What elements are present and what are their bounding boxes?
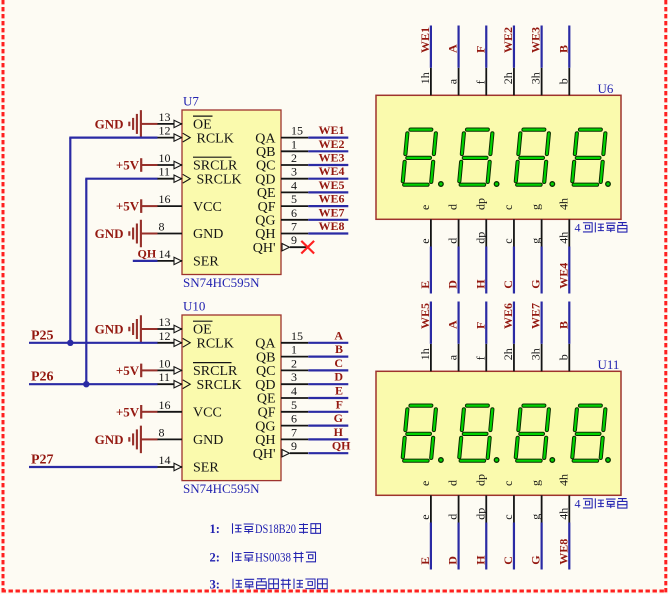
svg-text:QH: QH	[255, 433, 275, 448]
U11 digit 4 (figure 8)	[572, 406, 606, 461]
U7 pin 15 QA (right)	[255, 124, 308, 147]
wire net WE4 from U6 pin 4h	[568, 247, 570, 294]
wire net WE3 to U6 pin 3h	[541, 26, 543, 68]
U6 decimal point 4	[606, 182, 611, 187]
svg-text:VCC: VCC	[193, 406, 222, 421]
net label WE4	[318, 164, 344, 178]
svg-text:12: 12	[159, 124, 171, 138]
U10 pin 1 QB (right)	[256, 343, 308, 366]
U6 decimal point 3	[550, 182, 555, 187]
svg-text:14: 14	[159, 453, 171, 467]
svg-text:P27: P27	[31, 453, 54, 468]
U11 bottom pin c stub	[501, 495, 515, 522]
U7 pin 1 QB (right)	[256, 137, 308, 160]
wire net E at U10	[308, 397, 348, 399]
svg-text:a: a	[446, 354, 460, 360]
svg-text:1: 1	[291, 343, 297, 357]
svg-text:1:: 1:	[210, 522, 220, 536]
U11 digit 2 (figure 8)	[459, 406, 493, 461]
U7 pin 13 OE (left)	[157, 110, 213, 133]
U7 pin 11 SRCLK (left)	[157, 165, 242, 188]
U6 inside pin name d	[446, 204, 460, 210]
net label C	[501, 280, 515, 289]
U11 top pin f stub	[473, 344, 487, 372]
svg-text:6: 6	[291, 206, 297, 220]
svg-text:QA: QA	[255, 337, 276, 352]
svg-text:VCC: VCC	[193, 200, 222, 215]
U10 pin 2 QC (right)	[256, 356, 308, 379]
svg-text:SER: SER	[193, 255, 219, 270]
svg-text:QG: QG	[255, 419, 275, 434]
wire net G from U11 pin g	[541, 523, 543, 570]
svg-text:WE3: WE3	[529, 27, 543, 53]
reference designator U6	[598, 81, 614, 96]
U11 digit 1 (figure 8)	[402, 406, 436, 461]
net label G	[334, 411, 343, 425]
wire net H from U11 pin dp	[485, 523, 487, 570]
svg-text:B: B	[556, 45, 570, 53]
svg-text:DS18B20: DS18B20	[255, 522, 296, 536]
net label WE3	[318, 151, 344, 165]
svg-text:GND: GND	[95, 116, 124, 131]
svg-text:4h: 4h	[556, 474, 570, 486]
svg-text:13: 13	[159, 315, 171, 329]
U6 bottom pin d stub	[446, 219, 460, 246]
svg-text:4: 4	[575, 497, 581, 511]
wire net E from U11 pin e	[430, 523, 432, 570]
svg-text:15: 15	[291, 329, 303, 343]
svg-text:G: G	[334, 411, 343, 425]
U10 pin 4 QE (right)	[257, 384, 308, 407]
svg-text:12: 12	[159, 329, 171, 343]
display body U6 4-digit 7-segment	[376, 95, 621, 219]
+5V power symbol for U7 pin 10	[116, 158, 158, 173]
U11 inside pin name dp	[473, 474, 487, 486]
U6 digit 4 (figure 8)	[572, 130, 606, 185]
U10 pin 7 QH (right)	[255, 425, 308, 448]
sheet border dashed red (right)	[664, 0, 667, 593]
svg-text:3h: 3h	[529, 348, 543, 360]
svg-text:WE6: WE6	[318, 192, 344, 206]
svg-text:RCLK: RCLK	[197, 131, 234, 146]
U10 pin 15 QA (right)	[255, 329, 308, 352]
wire net A to U6 pin a	[457, 26, 459, 68]
U11 top pin 3h stub	[529, 344, 543, 372]
U6 bottom pin dp stub	[473, 219, 487, 246]
svg-text:4: 4	[291, 384, 297, 398]
svg-text:WE1: WE1	[318, 123, 344, 137]
net label WE7	[318, 205, 344, 219]
U11 inside pin name c	[501, 481, 515, 486]
reference designator U11	[598, 357, 620, 372]
svg-text:QH: QH	[332, 439, 351, 453]
reference designator U7	[183, 94, 199, 109]
wire net E from U6 pin e	[430, 247, 432, 294]
note 2: repair HS0038 pinout	[210, 551, 316, 565]
wire net F at U10	[308, 411, 348, 413]
svg-text:3: 3	[291, 165, 297, 179]
U6 top pin b stub	[556, 68, 570, 96]
wire P27 horizontal to U10 SER	[29, 466, 158, 468]
power ground symbol for U10 pin 8	[95, 426, 158, 454]
svg-text:D: D	[334, 370, 343, 384]
svg-text:HS0038: HS0038	[255, 551, 291, 565]
U11 top pin 2h stub	[501, 344, 515, 372]
wire net QH at U10 pin 9	[308, 452, 348, 454]
net label QH	[332, 439, 351, 453]
net label WE6	[318, 192, 344, 206]
svg-text:WE6: WE6	[501, 303, 515, 329]
svg-text:2: 2	[291, 151, 297, 165]
svg-text:RCLK: RCLK	[197, 337, 234, 352]
wire net WE8 from U11 pin 4h	[568, 523, 570, 570]
svg-text:6: 6	[291, 412, 297, 426]
IC body U10 SN74HC595N	[182, 315, 281, 481]
svg-text:d: d	[446, 238, 460, 244]
svg-text:13: 13	[159, 110, 171, 124]
net label G	[529, 555, 543, 564]
net label WE2	[318, 137, 344, 151]
wire net WE7 to U11 pin 3h	[541, 302, 543, 344]
net label H	[473, 555, 487, 565]
display body U11 4-digit 7-segment	[376, 371, 621, 495]
net label WE3	[529, 27, 543, 53]
wire net WE1 at U7	[308, 137, 348, 139]
U7 pin 7 QH (right)	[255, 220, 308, 243]
svg-text:B: B	[556, 321, 570, 329]
U7 pin 2 QC (right)	[256, 151, 308, 174]
U10 pin 10 SRCLR (left)	[157, 356, 238, 379]
svg-text:WE8: WE8	[556, 539, 570, 565]
net label WE7	[529, 303, 543, 329]
net label WE8	[318, 219, 344, 233]
svg-text:E: E	[335, 384, 343, 398]
wire net WE5 at U7	[308, 191, 348, 193]
net label C	[501, 556, 515, 565]
wire net WE3 at U7	[308, 164, 348, 166]
svg-text:e: e	[418, 238, 432, 243]
svg-text:WE1: WE1	[418, 27, 432, 53]
svg-text:+5V: +5V	[116, 404, 140, 419]
U6 decimal point 2	[494, 182, 499, 187]
U11 bottom pin g stub	[529, 495, 543, 522]
+5V power symbol for U10 pin 16	[116, 404, 158, 419]
svg-text:16: 16	[159, 398, 171, 412]
svg-text:SER: SER	[193, 461, 219, 476]
U10 pin 13 OE (left)	[157, 315, 213, 338]
U7 pin 10 SRCLR (left)	[157, 151, 238, 174]
svg-text:f: f	[473, 356, 487, 360]
net label D	[446, 280, 460, 289]
svg-text:b: b	[556, 354, 570, 360]
U10 pin 16 VCC (left)	[157, 398, 222, 421]
IC body U7 SN74HC595N	[182, 110, 281, 275]
U6 top pin a stub	[446, 68, 460, 96]
wire net H at U10	[308, 438, 348, 440]
wire net WE4 at U7	[308, 178, 348, 180]
svg-text:P26: P26	[31, 370, 54, 385]
svg-text:3: 3	[291, 370, 297, 384]
svg-text:4: 4	[575, 221, 581, 235]
svg-text:QE: QE	[257, 392, 276, 407]
svg-text:WE7: WE7	[529, 303, 543, 329]
svg-text:dp: dp	[473, 474, 487, 486]
U6 bottom pin 4h stub	[556, 219, 570, 246]
svg-text:WE7: WE7	[318, 205, 344, 219]
net label H	[334, 425, 344, 439]
wire net D from U6 pin d	[457, 247, 459, 294]
U11 bottom pin d stub	[446, 495, 460, 522]
wire net C from U11 pin c	[513, 523, 515, 570]
caption 4-digit digital tube label of U11	[575, 497, 627, 511]
U11 inside pin name e	[418, 481, 432, 486]
wire P25 horizontal	[29, 342, 158, 344]
net label WE1	[318, 123, 344, 137]
net label G	[529, 279, 543, 288]
sheet border dashed red (left)	[2, 0, 5, 593]
U10 pin 6 QG (right)	[255, 412, 308, 435]
svg-text:SN74HC595N: SN74HC595N	[183, 481, 260, 496]
svg-text:U10: U10	[183, 299, 205, 314]
svg-text:c: c	[501, 481, 515, 486]
svg-text:WE4: WE4	[318, 164, 344, 178]
svg-text:E: E	[418, 557, 432, 565]
svg-text:c: c	[501, 205, 515, 210]
wire net WE5 to U11 pin 1h	[430, 302, 432, 344]
svg-text:QC: QC	[256, 364, 275, 379]
caption 4-digit digital tube label of U6	[575, 221, 627, 235]
svg-text:4h: 4h	[556, 508, 570, 520]
svg-text:G: G	[529, 279, 543, 288]
net label P26	[31, 370, 54, 385]
U6 inside pin name 4h	[556, 198, 570, 210]
svg-text:F: F	[336, 397, 343, 411]
svg-text:QH: QH	[138, 246, 157, 260]
svg-text:15: 15	[291, 124, 303, 138]
wire net B to U11 pin b	[568, 302, 570, 344]
svg-text:a: a	[446, 78, 460, 84]
svg-text:+5V: +5V	[116, 199, 140, 214]
U10 pin 9 QH&#39; (right)	[253, 439, 308, 462]
+5V power symbol for U10 pin 10	[116, 363, 158, 378]
net label E	[418, 557, 432, 565]
svg-text:C: C	[501, 556, 515, 565]
svg-text:+5V: +5V	[116, 363, 140, 378]
svg-text:8: 8	[159, 220, 165, 234]
net label D	[446, 556, 460, 565]
svg-text:4: 4	[291, 178, 297, 192]
svg-text:U7: U7	[183, 94, 199, 109]
part value SN74HC595N of U10	[183, 481, 260, 496]
U11 inside pin name d	[446, 480, 460, 486]
U11 inside pin name 4h	[556, 474, 570, 486]
U10 pin 12 RCLK (left)	[157, 329, 234, 352]
svg-text:16: 16	[159, 192, 171, 206]
svg-text:5: 5	[291, 398, 297, 412]
net label WE5	[318, 178, 344, 192]
U11 digit 3 (figure 8)	[515, 406, 549, 461]
U6 inside pin name dp	[473, 198, 487, 210]
net label B	[556, 321, 570, 329]
svg-text:SRCLK: SRCLK	[197, 378, 242, 393]
U7 pin 9 QH&#39; (right)	[253, 233, 308, 256]
U10 pin 5 QF (right)	[258, 398, 309, 421]
svg-text:F: F	[473, 46, 487, 53]
svg-text:14: 14	[159, 247, 171, 261]
wire net WE1 to U6 pin 1h	[430, 26, 432, 68]
svg-text:F: F	[473, 322, 487, 329]
svg-text:WE2: WE2	[501, 27, 515, 53]
svg-text:d: d	[446, 480, 460, 486]
svg-text:11: 11	[159, 165, 171, 179]
svg-text:g: g	[529, 514, 543, 520]
U7 pin 3 QD (right)	[255, 165, 308, 188]
U7 pin 6 QG (right)	[255, 206, 308, 229]
svg-text:10: 10	[159, 356, 171, 370]
U11 decimal point 2	[494, 458, 499, 463]
svg-text:D: D	[446, 280, 460, 289]
svg-text:WE4: WE4	[556, 263, 570, 289]
net label P27	[31, 453, 54, 468]
U6 top pin 3h stub	[529, 68, 543, 96]
svg-text:GND: GND	[193, 433, 223, 448]
U6 top pin 2h stub	[501, 68, 515, 96]
svg-text:1h: 1h	[418, 348, 432, 360]
U6 digit 2 (figure 8)	[459, 130, 493, 185]
U11 top pin 1h stub	[418, 344, 432, 372]
U11 decimal point 3	[550, 458, 555, 463]
wire P26 branch vertical to U7 SRCLK	[85, 179, 87, 385]
svg-text:+5V: +5V	[116, 158, 140, 173]
U11 bottom pin 4h stub	[556, 495, 570, 522]
svg-text:1: 1	[291, 137, 297, 151]
svg-text:SRCLK: SRCLK	[197, 172, 242, 187]
net label F	[473, 322, 487, 329]
svg-text:D: D	[446, 556, 460, 565]
U6 digit 1 (figure 8)	[402, 130, 436, 185]
svg-text:dp: dp	[473, 508, 487, 520]
U11 bottom pin e stub	[418, 495, 432, 522]
svg-text:U11: U11	[598, 357, 620, 372]
reference designator U10	[183, 299, 205, 314]
svg-text:2h: 2h	[501, 348, 515, 360]
svg-text:C: C	[334, 356, 343, 370]
svg-text:f: f	[473, 80, 487, 84]
net label F	[336, 397, 343, 411]
svg-text:e: e	[418, 481, 432, 486]
svg-text:OE: OE	[193, 323, 212, 338]
U7 pin 12 RCLK (left)	[157, 124, 234, 147]
svg-text:QF: QF	[258, 406, 276, 421]
svg-text:d: d	[446, 204, 460, 210]
svg-text:QB: QB	[256, 350, 275, 365]
svg-text:C: C	[501, 280, 515, 289]
svg-text:4h: 4h	[556, 232, 570, 244]
svg-text:H: H	[334, 425, 344, 439]
U11 top pin b stub	[556, 344, 570, 372]
U10 pin 14 SER (left)	[157, 453, 219, 476]
wire net WE2 to U6 pin 2h	[513, 26, 515, 68]
svg-text:WE5: WE5	[318, 178, 344, 192]
wire net B at U10	[308, 356, 348, 358]
U10 pin 8 GND (left)	[157, 425, 223, 448]
svg-text:b: b	[556, 78, 570, 84]
net label E	[335, 384, 343, 398]
U6 bottom pin c stub	[501, 219, 515, 246]
net label WE1	[418, 27, 432, 53]
svg-text:SRCLR: SRCLR	[193, 364, 238, 379]
svg-text:10: 10	[159, 151, 171, 165]
svg-text:GND: GND	[193, 227, 223, 242]
wire net G from U6 pin g	[541, 247, 543, 294]
svg-text:1h: 1h	[418, 72, 432, 84]
sheet border dashed red (bottom)	[2, 590, 667, 593]
wire net H from U6 pin dp	[485, 247, 487, 294]
net label H	[473, 279, 487, 289]
U6 decimal point 1	[439, 182, 444, 187]
U6 bottom pin e stub	[418, 219, 432, 246]
svg-text:g: g	[529, 238, 543, 244]
wire P26 horizontal	[29, 383, 158, 385]
U7 pin 8 GND (left)	[157, 220, 223, 243]
svg-text:QH': QH'	[253, 241, 276, 256]
svg-text:QD: QD	[255, 378, 275, 393]
U6 inside pin name e	[418, 205, 432, 210]
svg-text:WE2: WE2	[318, 137, 344, 151]
net label B	[556, 45, 570, 53]
U10 pin 11 SRCLK (left)	[157, 370, 242, 393]
wire net WE2 at U7	[308, 150, 348, 152]
svg-text:QH': QH'	[253, 447, 276, 462]
svg-text:c: c	[501, 238, 515, 243]
svg-text:H: H	[473, 555, 487, 565]
svg-text:H: H	[473, 279, 487, 289]
net label WE5	[418, 303, 432, 329]
U7 pin 16 VCC (left)	[157, 192, 222, 215]
net label WE6	[501, 303, 515, 329]
net label C	[334, 356, 343, 370]
svg-text:GND: GND	[95, 226, 124, 241]
wire net C at U10	[308, 369, 348, 371]
svg-text:9: 9	[291, 439, 297, 453]
wire net A to U11 pin a	[457, 302, 459, 344]
svg-text:d: d	[446, 514, 460, 520]
wire net G at U10	[308, 425, 348, 427]
U11 decimal point 1	[439, 458, 444, 463]
U11 bottom pin dp stub	[473, 495, 487, 522]
U7 pin 4 QE (right)	[257, 178, 308, 201]
svg-text:c: c	[501, 514, 515, 519]
net label E	[418, 281, 432, 289]
svg-text:E: E	[418, 281, 432, 289]
svg-text:g: g	[529, 204, 543, 210]
svg-text:3:: 3:	[210, 577, 220, 591]
net label WE8	[556, 539, 570, 565]
note 1: repair DS18B20 power supply	[210, 522, 321, 536]
svg-text:9: 9	[291, 233, 297, 247]
svg-text:e: e	[418, 205, 432, 210]
U6 inside pin name c	[501, 205, 515, 210]
U11 top pin a stub	[446, 344, 460, 372]
U6 inside pin name g	[529, 204, 543, 210]
net label B	[335, 342, 343, 356]
svg-text:11: 11	[159, 370, 171, 384]
wire net WE7 at U7	[308, 219, 348, 221]
wire net F to U11 pin f	[485, 302, 487, 344]
net label P25	[31, 328, 54, 343]
U7 pin 5 QF (right)	[258, 192, 309, 215]
net label WE2	[501, 27, 515, 53]
